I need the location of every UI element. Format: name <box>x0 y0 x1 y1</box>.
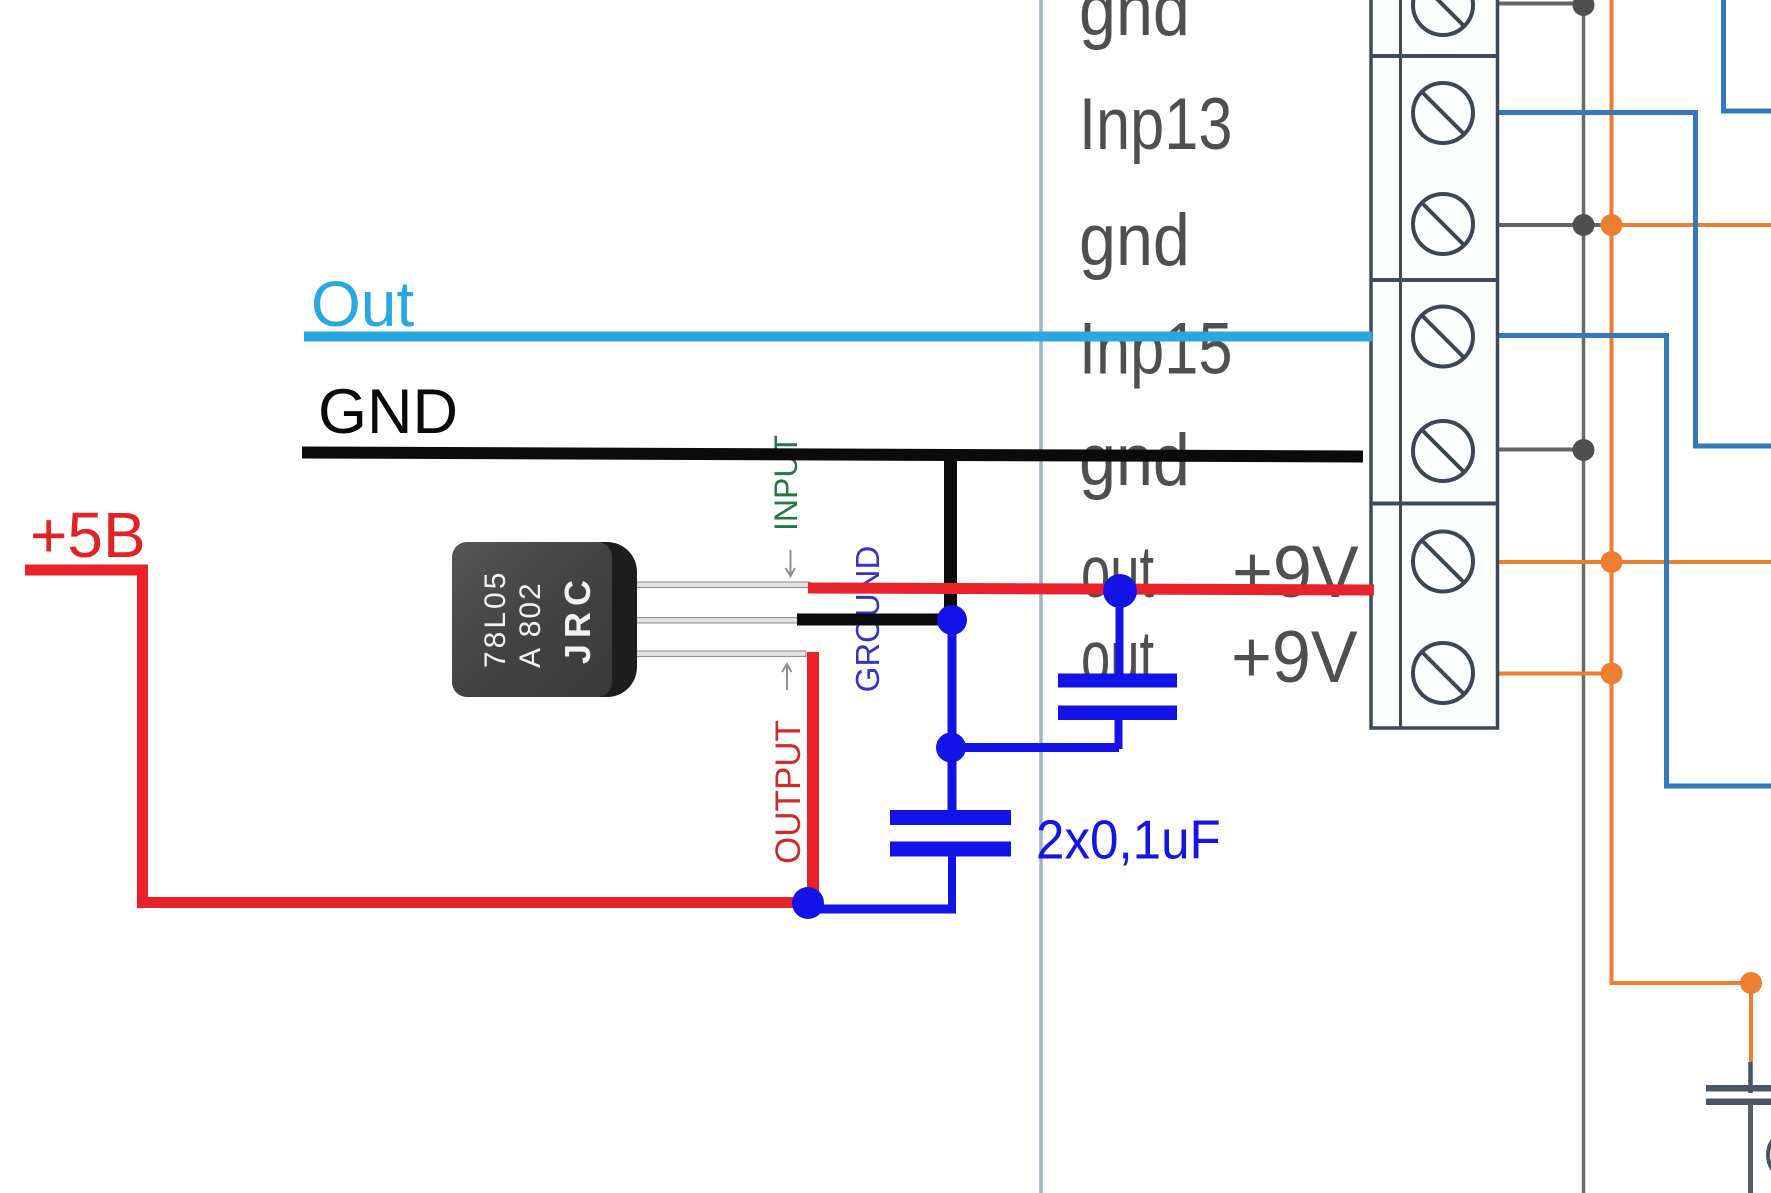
svg-text:A 802: A 802 <box>514 581 547 668</box>
svg-text:+9V: +9V <box>1232 532 1359 614</box>
svg-text:2x0,1uF: 2x0,1uF <box>1036 810 1221 871</box>
svg-text:+9V: +9V <box>1231 617 1358 699</box>
svg-text:GND: GND <box>318 377 458 447</box>
svg-text:gnd: gnd <box>1079 0 1190 51</box>
svg-text:gnd: gnd <box>1079 199 1190 281</box>
svg-text:Inp13: Inp13 <box>1079 84 1232 165</box>
svg-text:78L05: 78L05 <box>479 570 512 668</box>
svg-text:JRC: JRC <box>557 574 598 664</box>
svg-text:Out: Out <box>311 268 414 340</box>
svg-text:Inp15: Inp15 <box>1079 309 1232 390</box>
svg-text:+5B: +5B <box>30 499 146 571</box>
svg-text:OUTPUT: OUTPUT <box>769 720 808 864</box>
